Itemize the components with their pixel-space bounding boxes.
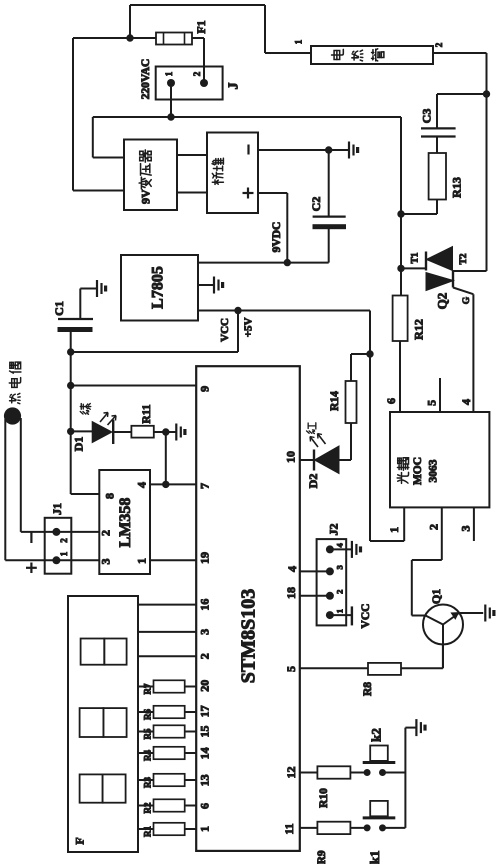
svg-text:G: G [462, 296, 472, 304]
svg-text:17: 17 [198, 705, 212, 717]
svg-text:+5V: +5V [242, 317, 254, 337]
svg-text:2: 2 [434, 42, 444, 47]
svg-text:20: 20 [198, 680, 212, 692]
svg-text:3: 3 [99, 559, 113, 565]
svg-text:k1: k1 [367, 851, 382, 864]
svg-text:2: 2 [192, 71, 202, 76]
svg-text:R13: R13 [450, 177, 464, 198]
svg-text:8: 8 [103, 493, 117, 499]
svg-text:R5: R5 [143, 728, 153, 739]
svg-text:5: 5 [284, 666, 298, 672]
svg-text:9V: 9V [139, 189, 153, 204]
svg-text:R3: R3 [143, 777, 153, 788]
svg-text:1: 1 [334, 609, 344, 613]
svg-text:J1: J1 [50, 503, 64, 515]
svg-text:R2: R2 [143, 802, 153, 813]
svg-text:1: 1 [135, 558, 149, 564]
svg-text:Q1: Q1 [429, 589, 443, 604]
svg-text:13: 13 [198, 774, 212, 786]
svg-text:LM358: LM358 [117, 498, 134, 548]
svg-text:R11: R11 [141, 404, 153, 423]
svg-text:R14: R14 [329, 391, 341, 411]
svg-text:C2: C2 [309, 197, 323, 212]
svg-text:T1: T1 [411, 252, 421, 263]
svg-text:4: 4 [135, 482, 149, 488]
svg-text:4: 4 [459, 399, 473, 405]
svg-text:R8: R8 [362, 682, 374, 696]
svg-text:2: 2 [59, 538, 69, 543]
svg-text:16: 16 [198, 599, 212, 611]
svg-text:3063: 3063 [427, 459, 439, 482]
svg-text:4: 4 [285, 566, 299, 572]
svg-text:C1: C1 [52, 301, 66, 316]
svg-text:R10: R10 [318, 788, 330, 808]
svg-text:D1: D1 [72, 437, 86, 452]
svg-text:R4: R4 [143, 750, 153, 761]
svg-text:R9: R9 [316, 850, 328, 864]
svg-text:1: 1 [294, 39, 304, 44]
svg-text:6: 6 [198, 803, 212, 809]
svg-text:19: 19 [198, 552, 212, 564]
svg-text:R7: R7 [143, 683, 153, 694]
svg-text:VCC: VCC [360, 604, 372, 629]
svg-text:T2: T2 [459, 253, 469, 264]
svg-text:F: F [73, 837, 87, 844]
svg-text:3: 3 [459, 526, 473, 532]
svg-text:220VAC: 220VAC [140, 59, 152, 100]
svg-text:1: 1 [387, 527, 401, 533]
svg-text:6: 6 [384, 398, 398, 404]
svg-text:VCC: VCC [219, 318, 231, 342]
svg-text:k2: k2 [369, 728, 384, 742]
svg-text:1: 1 [198, 826, 212, 832]
svg-text:3: 3 [198, 629, 212, 635]
svg-text:MOC: MOC [412, 457, 424, 485]
svg-text:12: 12 [284, 767, 298, 779]
svg-text:11: 11 [282, 823, 296, 834]
svg-text:R1: R1 [143, 826, 153, 837]
svg-text:7: 7 [198, 483, 212, 489]
svg-text:J: J [227, 83, 242, 90]
svg-text:10: 10 [284, 451, 298, 463]
svg-text:Q2: Q2 [435, 293, 450, 310]
svg-text:F1: F1 [194, 20, 208, 33]
svg-text:L7805: L7805 [150, 266, 167, 309]
svg-text:1: 1 [164, 71, 174, 76]
svg-text:C3: C3 [420, 109, 434, 124]
svg-text:STM8S103: STM8S103 [238, 589, 260, 683]
svg-text:1: 1 [59, 551, 69, 556]
svg-text:D2: D2 [306, 474, 320, 489]
svg-text:9VDC: 9VDC [271, 222, 283, 253]
svg-text:R6: R6 [143, 709, 153, 720]
svg-text:2: 2 [426, 524, 440, 530]
svg-text:15: 15 [198, 726, 212, 738]
svg-text:14: 14 [198, 747, 212, 759]
svg-text:18: 18 [284, 587, 298, 599]
svg-text:2: 2 [99, 530, 113, 536]
svg-text:2: 2 [334, 590, 344, 594]
svg-text:9: 9 [198, 386, 212, 392]
svg-text:J2: J2 [327, 524, 341, 536]
svg-text:3: 3 [334, 565, 344, 569]
svg-text:R12: R12 [412, 319, 426, 340]
svg-text:4: 4 [334, 543, 344, 548]
svg-text:5: 5 [425, 400, 439, 406]
svg-text:2: 2 [198, 653, 212, 659]
